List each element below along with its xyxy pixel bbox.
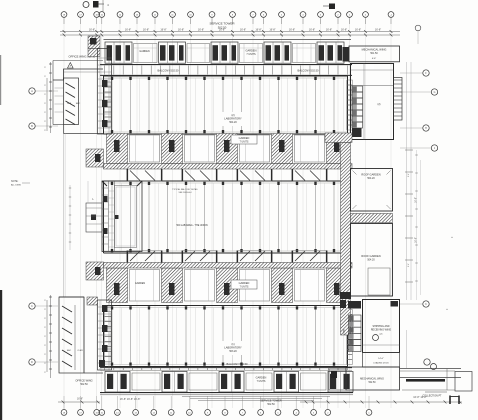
- svg-text:504.20: 504.20: [367, 177, 375, 180]
- svg-text:16'-8": 16'-8": [198, 29, 204, 32]
- svg-text:16'-8": 16'-8": [269, 29, 275, 32]
- svg-text:TYPICAL BALCONY DETAIL: TYPICAL BALCONY DETAIL: [172, 188, 199, 191]
- svg-text:LABORATORY: LABORATORY: [224, 346, 242, 350]
- svg-text:GARDEN: GARDEN: [256, 377, 267, 380]
- svg-text:CORR: CORR: [344, 329, 346, 335]
- svg-text:4'-6": 4'-6": [372, 58, 377, 60]
- svg-text:LOADING DOCK: LOADING DOCK: [373, 362, 389, 365]
- svg-text:(2): (2): [380, 334, 383, 336]
- svg-text:16'-8": 16'-8": [341, 29, 347, 32]
- svg-text:(2): (2): [378, 103, 381, 106]
- svg-text:7 UNITS: 7 UNITS: [246, 53, 256, 56]
- svg-text:BALCONY 502.50: BALCONY 502.50: [226, 362, 248, 366]
- svg-text:503.20: 503.20: [229, 350, 237, 353]
- svg-text:LABORATORY: LABORATORY: [224, 117, 242, 121]
- svg-text:16'-8": 16'-8": [77, 398, 83, 401]
- svg-text:MECHANICAL WING: MECHANICAL WING: [360, 378, 384, 381]
- svg-text:ROOF GARDEN: ROOF GARDEN: [361, 254, 380, 258]
- svg-text:+: +: [451, 235, 453, 239]
- svg-text:16'-8": 16'-8": [143, 29, 149, 32]
- svg-text:504.20: 504.20: [367, 259, 375, 262]
- svg-text:COLLECTION PT: COLLECTION PT: [423, 395, 443, 398]
- svg-text:16'-8": 16'-8": [178, 29, 184, 32]
- svg-text:16'-8": 16'-8": [160, 29, 166, 32]
- svg-text:502.50: 502.50: [80, 383, 88, 386]
- svg-text:16'-8": 16'-8": [255, 29, 261, 32]
- svg-text:SEC: SEC: [67, 350, 72, 352]
- svg-text:NOTE:: NOTE:: [11, 180, 19, 183]
- svg-text:502.50: 502.50: [267, 403, 275, 406]
- svg-text:502.50: 502.50: [218, 25, 227, 29]
- svg-text:14'-0": 14'-0": [378, 358, 384, 360]
- svg-text:(1): (1): [231, 343, 234, 346]
- svg-text:502.50: 502.50: [368, 382, 376, 384]
- svg-text:ALL DIMS: ALL DIMS: [11, 184, 21, 187]
- svg-text:9'-4": 9'-4": [408, 263, 410, 267]
- svg-text:CLER: CLER: [77, 350, 83, 352]
- svg-text:16'-8" 16'-8" 16'-8": 16'-8" 16'-8" 16'-8": [120, 398, 141, 401]
- svg-text:OFFICE WING: OFFICE WING: [75, 379, 92, 383]
- svg-text:500 LAB AREA - THE UNION: 500 LAB AREA - THE UNION: [176, 224, 208, 227]
- svg-text:SEE DWG A-4: SEE DWG A-4: [178, 191, 192, 194]
- svg-text:9'-4": 9'-4": [408, 173, 410, 177]
- svg-text:GARDEN: GARDEN: [239, 282, 250, 285]
- svg-text:16'-8": 16'-8": [89, 29, 95, 32]
- svg-text:7 UNITS: 7 UNITS: [240, 141, 249, 143]
- svg-text:16'-8": 16'-8": [326, 29, 332, 32]
- svg-text:501.50: 501.50: [370, 52, 378, 55]
- svg-text:7 UNITS: 7 UNITS: [257, 381, 266, 383]
- svg-text:GARDEN: GARDEN: [135, 282, 146, 285]
- svg-text:BALCONY 502.50: BALCONY 502.50: [297, 69, 319, 73]
- svg-text:OFF: OFF: [67, 103, 72, 105]
- svg-text:SEC: SEC: [76, 103, 81, 105]
- svg-text:ROOF GARDEN: ROOF GARDEN: [361, 173, 380, 177]
- svg-text:GARDEN: GARDEN: [139, 50, 150, 53]
- svg-text:+: +: [446, 307, 448, 311]
- svg-text:GARDEN: GARDEN: [245, 49, 256, 53]
- svg-text:MECHANICAL WING: MECHANICAL WING: [362, 48, 387, 52]
- svg-text:16'-8": 16'-8": [375, 29, 381, 32]
- svg-text:16'-8": 16'-8": [240, 29, 246, 32]
- svg-text:7 UNITS: 7 UNITS: [240, 286, 249, 288]
- svg-text:16'-8": 16'-8": [125, 29, 131, 32]
- svg-text:(2): (2): [231, 114, 234, 117]
- svg-text:RECEIVING WING: RECEIVING WING: [371, 328, 391, 331]
- svg-text:J: J: [434, 148, 435, 150]
- svg-text:16'-8": 16'-8": [355, 29, 361, 32]
- svg-text:16'-8": 16'-8": [309, 29, 315, 32]
- svg-text:G: G: [434, 92, 436, 94]
- svg-text:504.20: 504.20: [229, 121, 237, 124]
- svg-text:GARDEN: GARDEN: [239, 137, 250, 140]
- svg-text:16'-8": 16'-8": [289, 29, 295, 32]
- svg-text:BALCONY 502.50: BALCONY 502.50: [157, 69, 179, 73]
